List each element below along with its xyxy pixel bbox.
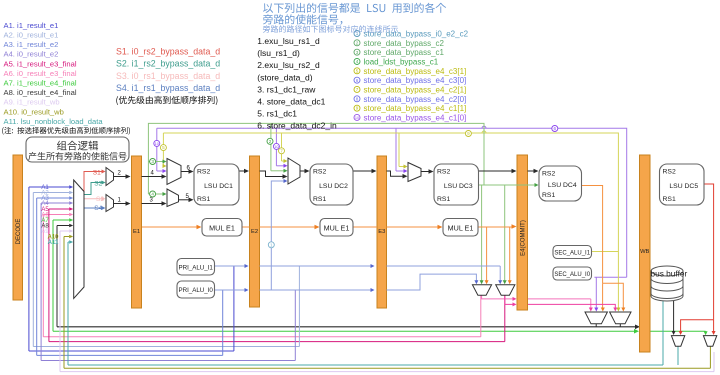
svg-text:RS1: RS1 xyxy=(313,196,326,203)
svg-text:2: 2 xyxy=(356,40,359,45)
svg-text:RS2: RS2 xyxy=(663,169,676,176)
svg-text:6. store_data_dc2_in: 6. store_data_dc2_in xyxy=(257,120,337,130)
svg-text:3: 3 xyxy=(150,197,154,203)
svg-text:store_data_bypass_e4_c3[0]: store_data_bypass_e4_c3[0] xyxy=(364,76,467,85)
svg-text:5: 5 xyxy=(356,68,359,73)
svg-text:store_data_bypass_e4_c2[0]: store_data_bypass_e4_c2[0] xyxy=(364,95,467,104)
svg-text:S4: S4 xyxy=(94,205,102,212)
svg-text:A11. lsu_nonblock_load_data: A11. lsu_nonblock_load_data xyxy=(4,117,104,126)
svg-text:store_data_bypass_e4_c3[1]: store_data_bypass_e4_c3[1] xyxy=(364,67,467,76)
svg-text:A2. i0_result_e1: A2. i0_result_e1 xyxy=(4,31,59,40)
svg-text:bus buffer: bus buffer xyxy=(651,269,688,279)
svg-text:2: 2 xyxy=(269,139,272,144)
svg-text:LSU DC2: LSU DC2 xyxy=(319,183,348,190)
svg-text:LSU DC3: LSU DC3 xyxy=(444,183,473,190)
svg-text:RS1: RS1 xyxy=(663,196,676,203)
svg-text:4: 4 xyxy=(151,170,155,176)
svg-text:A9. i1_result_wb: A9. i1_result_wb xyxy=(4,98,60,107)
svg-text:2.exu_lsu_rs2_d: 2.exu_lsu_rs2_d xyxy=(257,60,320,70)
svg-text:A10. i0_result_wb: A10. i0_result_wb xyxy=(4,107,64,116)
svg-text:6: 6 xyxy=(356,78,359,83)
svg-text:store_data_bypass_i0_e2_c2: store_data_bypass_i0_e2_c2 xyxy=(364,30,469,39)
svg-text:RS2: RS2 xyxy=(197,169,210,176)
svg-text:LSU DC5: LSU DC5 xyxy=(669,183,698,190)
svg-text:5. rs1_dc1: 5. rs1_dc1 xyxy=(257,108,297,118)
svg-text:1.exu_lsu_rs1_d: 1.exu_lsu_rs1_d xyxy=(257,36,320,46)
svg-text:store_data_bypass_e4_c2[1]: store_data_bypass_e4_c2[1] xyxy=(364,85,467,94)
svg-text:S2: S2 xyxy=(94,181,102,188)
svg-text:A11: A11 xyxy=(48,240,59,246)
svg-text:MUL E1: MUL E1 xyxy=(324,224,350,233)
svg-text:E1: E1 xyxy=(133,229,140,235)
svg-text:1: 1 xyxy=(118,197,122,203)
svg-text:A4. i0_result_e2: A4. i0_result_e2 xyxy=(4,50,59,59)
svg-text:load_ldst_bypass_c1: load_ldst_bypass_c1 xyxy=(364,57,439,66)
svg-text:8: 8 xyxy=(356,96,359,101)
svg-text:MUL E1: MUL E1 xyxy=(209,224,235,233)
svg-text:DECODE: DECODE xyxy=(16,219,22,245)
svg-text:S3: S3 xyxy=(96,196,104,203)
svg-text:RS2: RS2 xyxy=(542,171,555,178)
svg-text:2: 2 xyxy=(118,170,122,176)
svg-text:A7. i1_result_e4_final: A7. i1_result_e4_final xyxy=(4,79,77,88)
svg-text:9: 9 xyxy=(356,106,359,111)
svg-text:store_data_bypass_c2: store_data_bypass_c2 xyxy=(364,39,445,48)
svg-text:RS1: RS1 xyxy=(542,192,555,199)
svg-text:6: 6 xyxy=(554,126,557,131)
svg-text:7: 7 xyxy=(356,87,359,92)
svg-text:9: 9 xyxy=(467,131,470,136)
svg-text:7: 7 xyxy=(280,148,283,153)
svg-text:1: 1 xyxy=(270,242,273,247)
svg-text:E4(COMMIT): E4(COMMIT) xyxy=(520,220,526,256)
svg-text:MUL E1: MUL E1 xyxy=(448,224,474,233)
svg-text:store_data_bypass_c1: store_data_bypass_c1 xyxy=(364,48,445,57)
svg-text:10: 10 xyxy=(274,145,278,149)
svg-text:S1: S1 xyxy=(93,169,101,176)
svg-text:E2: E2 xyxy=(251,229,258,235)
svg-text:SEC_ALU_I0: SEC_ALU_I0 xyxy=(554,272,590,278)
svg-text:SEC_ALU_I1: SEC_ALU_I1 xyxy=(554,251,590,257)
svg-text:3: 3 xyxy=(151,159,154,164)
svg-text:3. rs1_dc1_raw: 3. rs1_dc1_raw xyxy=(257,84,316,94)
svg-text:S4. i1_rs1_bypass_data_d: S4. i1_rs1_bypass_data_d xyxy=(116,83,220,93)
svg-text:A1. i1_result_e1: A1. i1_result_e1 xyxy=(4,21,59,30)
svg-text:A6. i0_result_e3_final: A6. i0_result_e3_final xyxy=(4,69,77,78)
svg-text:RS1: RS1 xyxy=(437,196,450,203)
svg-text:store_data_bypass_e4_c1[1]: store_data_bypass_e4_c1[1] xyxy=(364,104,467,113)
svg-text:LSU DC1: LSU DC1 xyxy=(204,183,233,190)
svg-text:store_data_bypass_e4_c1[0]: store_data_bypass_e4_c1[0] xyxy=(364,113,467,122)
svg-text:WB: WB xyxy=(640,249,649,255)
svg-text:E3: E3 xyxy=(378,229,385,235)
svg-text:A3. i1_result_e2: A3. i1_result_e2 xyxy=(4,40,59,49)
svg-text:4. store_data_dc1: 4. store_data_dc1 xyxy=(257,96,325,106)
svg-text:3: 3 xyxy=(356,50,359,55)
svg-text:A5. i1_result_e3_final: A5. i1_result_e3_final xyxy=(4,59,77,68)
svg-text:S1. i0_rs2_bypass_data_d: S1. i0_rs2_bypass_data_d xyxy=(116,47,220,57)
svg-text:10: 10 xyxy=(155,142,159,146)
svg-text:10: 10 xyxy=(355,116,359,120)
svg-text:S2. i1_rs2_bypass_data_d: S2. i1_rs2_bypass_data_d xyxy=(116,59,220,69)
svg-text:RS2: RS2 xyxy=(437,169,450,176)
svg-text:RS2: RS2 xyxy=(313,169,326,176)
svg-text:(lsu_rs1_d): (lsu_rs1_d) xyxy=(257,48,300,58)
svg-text:4: 4 xyxy=(356,59,359,64)
svg-text:PRI_ALU_I1: PRI_ALU_I1 xyxy=(178,265,213,272)
svg-text:4: 4 xyxy=(151,192,154,197)
svg-text:PRI_ALU_I0: PRI_ALU_I0 xyxy=(178,287,213,294)
svg-text:RS1: RS1 xyxy=(197,196,210,203)
svg-text:A8. i0_result_e4_final: A8. i0_result_e4_final xyxy=(4,88,77,97)
svg-text:LSU DC4: LSU DC4 xyxy=(548,182,577,189)
svg-text:S3. i0_rs1_bypass_data_d: S3. i0_rs1_bypass_data_d xyxy=(116,71,220,81)
svg-text:(store_data_d): (store_data_d) xyxy=(257,72,312,82)
svg-text:5: 5 xyxy=(162,145,165,150)
